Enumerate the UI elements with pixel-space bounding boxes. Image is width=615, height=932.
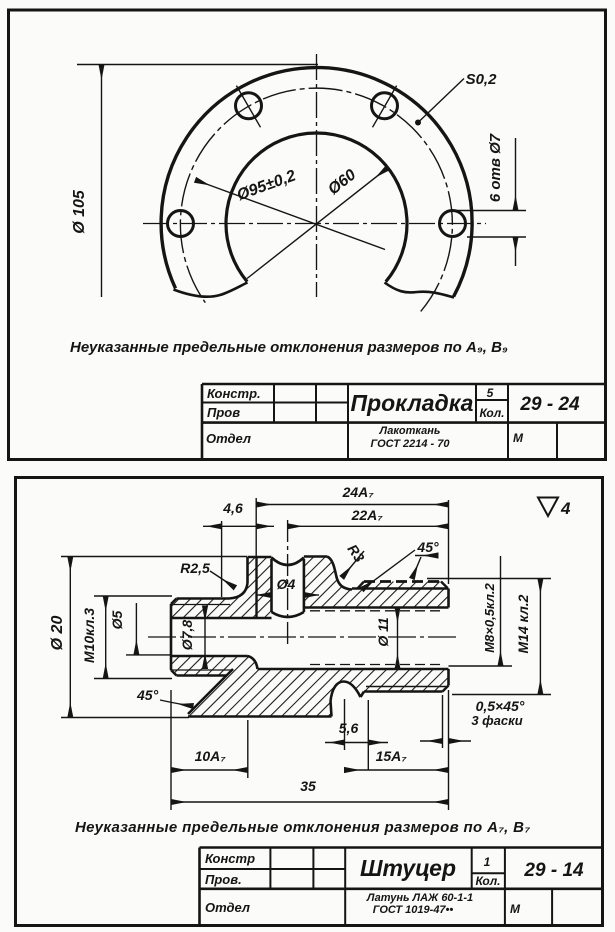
flange right face bottom [331,701,332,717]
hatched section: top-left wall [171,557,272,618]
svg-text:Лакоткань: Лакоткань [379,425,441,437]
bore step curve [248,656,258,669]
chamfer ramp left top [358,582,365,589]
svg-text:0,5×45°: 0,5×45° [476,698,525,714]
thread root bottom (thin) [366,686,449,688]
flange left face [246,557,249,583]
break edge left (wavy) [174,283,248,297]
bore bottom edge left [171,655,248,658]
hole left [168,211,194,237]
svg-text:ГОСТ 2214 - 70: ГОСТ 2214 - 70 [371,438,451,450]
svg-text:Ø 11: Ø 11 [375,617,391,647]
dimension M14кл.2 [539,579,541,695]
svg-text:15А₇: 15А₇ [376,748,408,764]
svg-text:М14 кл.2: М14 кл.2 [515,594,531,653]
extension lines Ø7 hole dimension [448,210,526,212]
gasket inner circle Ø60 (partial) [226,133,407,282]
tube top edge [177,597,230,600]
right end chamfer bottom [443,686,449,692]
title block 1 texts [206,386,580,450]
title block 1 [202,384,606,459]
leader R3 [342,551,364,578]
svg-text:1: 1 [484,855,491,869]
hatched section: bottom tube wall [171,656,258,676]
leader dot S0,2 [415,120,421,126]
hatched section: top-right wall [304,557,449,608]
ext line 24A7 left [255,498,257,557]
svg-text:Отдел: Отдел [206,431,251,446]
svg-text:Отдел: Отдел [205,900,250,915]
hole Ø4 right wall [303,559,306,612]
tube bottom edge [177,674,228,677]
svg-text:4,6: 4,6 [222,500,243,516]
45 deg leader short [412,557,421,579]
svg-text:М8×0,5кл.2: М8×0,5кл.2 [482,582,497,652]
svg-text:Латунь ЛАЖ 60-1-1: Латунь ЛАЖ 60-1-1 [366,892,473,904]
hole top-right [372,93,398,119]
bore bottom edge right [258,668,449,671]
hole right [440,211,466,237]
svg-text:Кол.: Кол. [479,406,504,420]
dimension M10кл.3 [105,596,107,679]
svg-text:5,6: 5,6 [339,720,359,736]
title block 2 [200,848,604,925]
ext line Ø20 top [61,556,247,558]
svg-text:45°: 45° [136,687,159,703]
dimension Ø20 [69,557,71,718]
surface finish mark [538,498,558,517]
chamfer ramp right top [441,582,448,589]
svg-text:Ø7,8: Ø7,8 [179,620,195,651]
internal thread dashed top [310,610,440,612]
hatched section: flange bottom mass [188,669,331,717]
left end face [170,604,173,670]
svg-text:R2,5: R2,5 [180,560,210,576]
internal thread dashed bottom [310,664,440,666]
svg-text:Ø5: Ø5 [109,610,125,629]
dimension Ø4 arrows [256,594,272,596]
fillet R2,5 [229,583,248,599]
dimension line 6 отв Ø7 upper [515,138,517,211]
title block 2 texts [205,851,584,916]
ext line M10 top [94,595,172,597]
ext line M8 bore [449,665,513,667]
svg-text:Прокладка: Прокладка [351,390,474,416]
svg-text:Ø 20: Ø 20 [49,616,66,651]
svg-text:М10кл.3: М10кл.3 [81,608,97,663]
dimension line Ø60 [247,168,388,279]
dimension line 6 отв Ø7 lower [515,237,517,266]
internal edge vertical [255,557,257,618]
svg-text:22А₇: 22А₇ [351,507,384,523]
panel 1 border frame [9,10,606,460]
svg-text:29 - 14: 29 - 14 [523,860,584,881]
flange top right edge [304,555,327,558]
svg-text:М: М [510,902,521,916]
dimension 4,6 arrows [203,525,222,527]
svg-text:5: 5 [487,386,494,400]
thread crest dashed top [364,580,441,583]
right end face bottom [447,669,450,686]
groove root arc over hole [272,558,304,566]
dimension 22A7 [288,525,449,527]
dimension 15A7 [345,769,449,771]
bolt circle Ø95 dash-dot [180,88,452,311]
hole Ø4 left wall [270,559,273,612]
svg-text:Неуказанные предельные откло: Неуказанные предельные отклонения размер… [70,339,508,356]
thread crest bottom edge [364,690,443,693]
dimension 35 [171,801,449,803]
dimension Ø7,8 [204,606,206,669]
45 deg underline arrow [415,555,438,557]
hole Ø4 bottom arc [272,612,304,617]
vertical centerline [316,54,318,297]
svg-text:S0,2: S0,2 [466,71,498,88]
svg-text:Штуцер: Штуцер [360,855,456,881]
dimension line Ø95±0,2 [196,180,386,250]
45 deg bottom-left leader [160,700,193,706]
hole top-left [236,93,262,119]
extension line top (Ø105) [77,64,318,66]
thread root line top [352,587,449,590]
ext line chamfer right [448,690,450,810]
bore top edge left Ø5 [171,617,272,620]
ext line flange face bottom [247,720,249,778]
radial centerline top-right hole [373,86,397,128]
ext line 4,6 left [221,521,223,597]
radial centerline top-left hole [236,86,260,128]
break edge right (wavy) [385,283,455,298]
hatched section: bottom-right thread band [331,669,449,701]
ext line left face bottom [170,690,172,810]
svg-text:Ø 105: Ø 105 [71,189,88,234]
svg-text:Ø4: Ø4 [277,576,296,592]
svg-text:6 отв Ø7: 6 отв Ø7 [487,133,504,202]
svg-text:Кол.: Кол. [475,874,500,888]
chamfer bottom-left [171,670,177,676]
svg-text:Констр.: Констр. [207,386,261,401]
dimension line Ø105 [101,65,103,298]
right end face top [447,589,450,608]
ext line 5,6 right [367,700,369,770]
groove curve R3 [327,557,352,590]
chamfer top-left [171,599,177,605]
leader S0,2 [418,79,464,123]
groove dome bottom [331,682,361,702]
ext line M14 top [427,578,551,580]
tube thread minor top (thin) [172,604,230,606]
bore top edge right Ø8 [305,606,449,609]
axis centerline [148,636,458,638]
groove to thread join [361,692,365,698]
ext line M14 bottom [452,694,551,696]
ext line M10 bottom [94,678,172,680]
45 cone edge bottom-left [188,669,233,714]
svg-text:ГОСТ 1019-47••: ГОСТ 1019-47•• [373,904,454,916]
dimension 10A7 [171,769,248,771]
leader R2,5 [210,571,235,588]
svg-text:М: М [513,431,524,445]
svg-text:Констр: Констр [205,851,255,866]
dimension Ø5 [135,603,137,655]
svg-text:24А₇: 24А₇ [342,484,375,500]
panel 2 border frame [16,478,603,926]
svg-text:29 - 24: 29 - 24 [519,394,580,415]
horizontal centerline [143,223,486,225]
gasket outer circle (partial, gap at bottom) [161,68,472,297]
svg-text:10А₇: 10А₇ [195,748,227,764]
dimension 24A7 [256,504,448,506]
chamfer 0,5 arrows [420,740,443,742]
hole centerline vertical [287,520,289,647]
flange top edge [248,556,272,559]
svg-text:Пров.: Пров. [205,872,242,887]
flange bottom edge [188,715,332,718]
dimension 5,6 arrows [325,742,345,744]
45 deg leader long [362,550,415,590]
svg-text:35: 35 [300,778,316,794]
svg-text:4: 4 [560,499,571,518]
ext line Ø20 bottom [61,717,189,719]
svg-text:3 фаски: 3 фаски [471,713,522,728]
svg-text:45°: 45° [416,539,439,555]
ext line chamfer left [442,695,444,748]
dimension M8x0,5 [500,556,502,666]
ext line right face top [448,500,450,584]
tube thread minor bottom (thin) [172,669,232,671]
ext line Ø5 [126,654,172,656]
svg-text:Пров: Пров [207,405,240,420]
dimension Ø11 [397,608,399,670]
ext line 5,6 left [344,699,346,750]
svg-text:Неуказанные предельные откло: Неуказанные предельные отклонения размер… [75,819,530,836]
labels panel 2 [49,484,531,794]
